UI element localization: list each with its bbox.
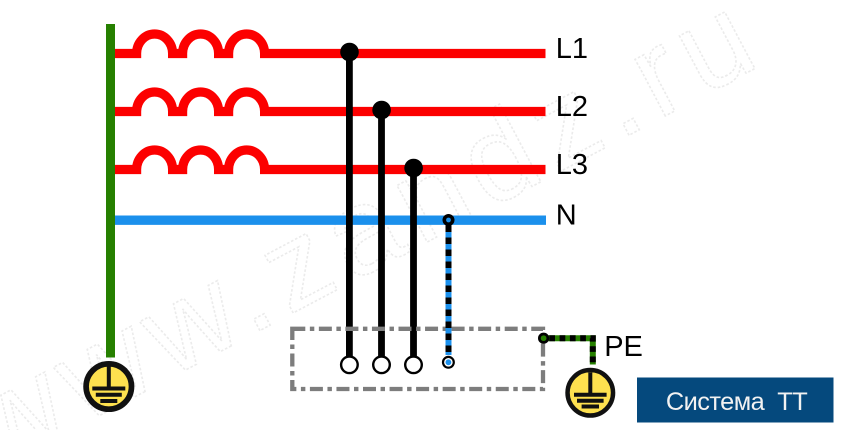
svg-text:Система ТТ: Система ТТ xyxy=(666,388,807,416)
svg-text:L3: L3 xyxy=(556,149,588,181)
svg-text:PE: PE xyxy=(604,331,643,363)
svg-text:L1: L1 xyxy=(556,33,588,65)
svg-text:L2: L2 xyxy=(556,91,588,123)
svg-text:N: N xyxy=(556,200,577,232)
